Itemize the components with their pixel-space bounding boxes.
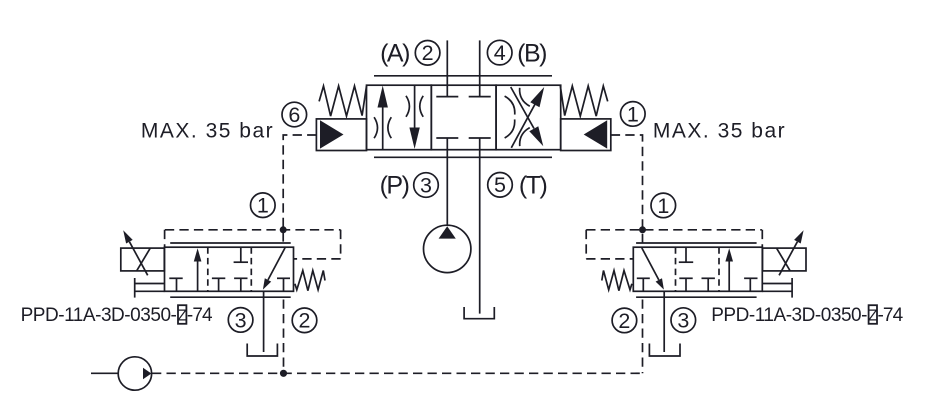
V2 spring — [295, 271, 325, 291]
port line A (2) top — [446, 40, 448, 85]
port line P (3) down to pump — [446, 150, 448, 226]
svg-text:(T): (T) — [519, 171, 547, 199]
V2 proportional solenoid with arrow — [121, 230, 165, 275]
svg-text:2: 2 — [422, 41, 434, 65]
V3 proportional solenoid with arrow — [763, 230, 807, 275]
DV1 centre box blocked ports (4 T-symbols) — [436, 85, 490, 150]
svg-text:PPD-11A-3D-0350-: PPD-11A-3D-0350- — [21, 305, 177, 326]
tank symbol under T line — [464, 307, 494, 319]
svg-text:(B): (B) — [517, 39, 546, 67]
V2 drain line to tank — [263, 291, 265, 352]
junction dot left — [280, 226, 287, 233]
pilot line from DV1 right pilot (1) down to right valve — [611, 135, 643, 247]
svg-text:3: 3 — [420, 173, 432, 197]
svg-text:PPD-11A-3D-0350-: PPD-11A-3D-0350- — [711, 305, 867, 326]
directional valve DV1 body (3 position boxes) — [367, 85, 561, 150]
DV1 right box crossed arrows with orifices — [505, 87, 545, 148]
port line B (4) top — [479, 40, 481, 85]
V2 proportional indicator lines — [170, 243, 291, 297]
svg-text:(A): (A) — [380, 39, 409, 67]
svg-text:2: 2 — [618, 309, 630, 333]
pump symbol P2 — [118, 357, 151, 390]
V3 section dividers (dashed) — [676, 247, 720, 291]
svg-text:3: 3 — [235, 308, 247, 332]
DV1 left pilot box with solenoid triangle — [316, 119, 366, 151]
node 1 circled left valve — [250, 193, 275, 218]
svg-text:5: 5 — [494, 173, 506, 197]
node 2 circled — [415, 41, 440, 66]
svg-text:3: 3 — [677, 309, 689, 333]
DV1 right pilot box with solenoid triangle — [561, 119, 611, 151]
svg-text:4: 4 — [494, 41, 506, 65]
svg-text:1: 1 — [657, 194, 669, 218]
V2 centre section blocked ports — [212, 247, 248, 291]
svg-text:Z: Z — [868, 308, 877, 325]
DV1 left box down-arrow with orifices — [406, 85, 423, 149]
right reducing valve V3 body — [633, 247, 762, 291]
svg-text:6: 6 — [288, 103, 300, 127]
DV1 left box up-arrow with orifices — [374, 86, 391, 150]
svg-text:MAX. 35 bar: MAX. 35 bar — [141, 120, 274, 143]
bottom pilot supply dashed line — [152, 372, 643, 374]
V3 proportional indicator lines — [636, 243, 757, 297]
V2 tank symbol — [247, 344, 277, 357]
V2 drain channel to tank plate — [135, 278, 165, 298]
V3 spring — [602, 271, 632, 291]
left pilot branch rectangle — [165, 230, 341, 259]
svg-text:Z: Z — [177, 308, 186, 325]
right pilot branch rectangle — [586, 230, 762, 259]
node 3 circled right valve — [671, 308, 696, 333]
node 5 circled — [488, 173, 513, 198]
node 1 circled right valve — [651, 193, 676, 218]
node 1 circled top right — [621, 102, 646, 127]
V2 section dividers (dashed) — [208, 247, 252, 291]
proportional indicator line bottom — [374, 156, 552, 158]
DV1 left spring — [319, 86, 366, 116]
V2 left section blocked port T and up-arrow — [169, 248, 201, 291]
svg-text:MAX. 35 bar: MAX. 35 bar — [653, 120, 786, 143]
svg-text:-74: -74 — [187, 305, 213, 326]
type code text right valve — [711, 305, 903, 326]
pilot line from DV1 left pilot (6) down to left valve — [283, 135, 316, 247]
svg-text:(P): (P) — [380, 171, 409, 199]
node 6 circled — [282, 102, 307, 127]
node 3 circled left valve — [228, 308, 253, 333]
svg-text:1: 1 — [257, 194, 269, 218]
type code text left valve — [21, 305, 213, 326]
V3 drain channel to tank plate — [762, 278, 792, 298]
left valve port 2 dashed line — [283, 300, 285, 374]
supply line into pump P2 — [91, 372, 118, 374]
pump symbol P1 — [424, 225, 471, 272]
V3 centre section blocked ports — [679, 247, 715, 291]
svg-text:2: 2 — [299, 309, 311, 333]
port line T (5) down to tank — [479, 150, 481, 314]
node 3 circled — [414, 173, 439, 198]
node 2 circled left valve — [292, 308, 317, 333]
V3 tank symbol — [649, 344, 680, 357]
junction dot bottom — [280, 370, 287, 377]
node 4 circled — [487, 40, 512, 65]
svg-text:-74: -74 — [878, 305, 904, 326]
node 2 circled right valve — [612, 308, 637, 333]
V3 drain line to tank — [663, 291, 665, 352]
right valve port 2 dashed line — [642, 300, 644, 374]
V2 right section diagonal arrow and blocked port — [263, 248, 290, 291]
V3 left section diagonal arrow and blocked port — [637, 248, 664, 291]
DV1 right spring — [560, 86, 607, 116]
junction dot right — [639, 226, 646, 233]
svg-text:1: 1 — [627, 102, 639, 126]
left reducing valve V2 body — [165, 247, 294, 291]
proportional indicator line top — [374, 75, 552, 77]
V3 right section blocked port T and up-arrow — [725, 248, 757, 291]
